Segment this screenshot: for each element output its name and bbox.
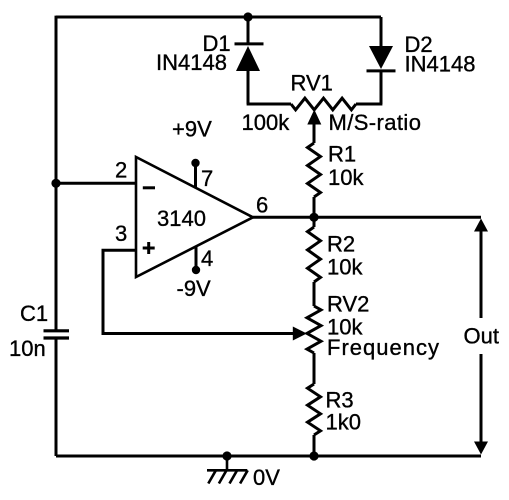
svg-text:Frequency: Frequency bbox=[327, 335, 440, 360]
svg-text:6: 6 bbox=[256, 193, 268, 218]
wire R3 to bottom rail bbox=[313, 435, 316, 456]
svg-text:100k: 100k bbox=[242, 110, 291, 135]
svg-text:M/S-ratio: M/S-ratio bbox=[329, 110, 422, 135]
svg-text:+9V: +9V bbox=[172, 117, 212, 142]
wire left rail upper (top rail to C1) bbox=[55, 16, 58, 331]
diode D2 (cathode down) bbox=[367, 17, 396, 104]
svg-text:10n: 10n bbox=[9, 336, 46, 361]
svg-text:3140: 3140 bbox=[157, 206, 206, 231]
resistor R1 bbox=[308, 143, 321, 197]
wire RV1 wiper to R1 bbox=[313, 123, 316, 143]
op-amp inverting input marker (minus) bbox=[143, 186, 155, 189]
op-amp U1 3140 triangle bbox=[136, 157, 253, 277]
wire output node (pin 6 to Out arrow) bbox=[253, 216, 481, 219]
svg-text:0V: 0V bbox=[253, 465, 280, 490]
svg-text:RV2: RV2 bbox=[327, 292, 369, 317]
junction node output / R1 / R2 bbox=[309, 213, 318, 222]
output indicator arrow up bbox=[474, 219, 488, 319]
capacitor C1 bbox=[44, 331, 70, 338]
junction node bottom rail / ground bbox=[222, 451, 231, 460]
junction node left rail / pin 2 bbox=[51, 179, 60, 188]
junction node bottom rail / R3 bbox=[309, 451, 318, 460]
ground symbol 0V bbox=[207, 456, 248, 484]
svg-text:R2: R2 bbox=[327, 232, 355, 257]
svg-text:-9V: -9V bbox=[177, 276, 212, 301]
svg-text:10k: 10k bbox=[327, 255, 363, 280]
power +9V stub (pin 7) bbox=[191, 159, 199, 189]
wire bottom rail bbox=[56, 455, 481, 458]
op-amp non-inverting input marker (plus) bbox=[143, 242, 155, 254]
wire pin 3 to RV2 wiper bbox=[103, 250, 295, 333]
wire left rail lower (C1 to bottom rail) bbox=[55, 338, 58, 456]
svg-text:C1: C1 bbox=[20, 301, 48, 326]
svg-text:1k0: 1k0 bbox=[326, 410, 361, 435]
potentiometer RV1 track bbox=[247, 98, 383, 110]
wire top rail bbox=[56, 16, 381, 19]
potentiometer RV2 element bbox=[307, 306, 321, 353]
resistor R2 bbox=[308, 217, 321, 306]
output indicator arrow down bbox=[474, 354, 488, 455]
diode D1 (cathode up) bbox=[235, 17, 264, 104]
wire R1 to output node bbox=[313, 197, 316, 217]
svg-text:3: 3 bbox=[115, 221, 127, 246]
svg-text:2: 2 bbox=[115, 158, 127, 183]
resistor R3 bbox=[308, 384, 321, 435]
svg-text:RV1: RV1 bbox=[291, 71, 333, 96]
svg-text:IN4148: IN4148 bbox=[405, 52, 476, 77]
potentiometer RV1 wiper arrow bbox=[307, 110, 321, 125]
svg-text:R1: R1 bbox=[328, 142, 356, 167]
potentiometer RV2 wiper arrow bbox=[293, 327, 307, 341]
power -9V stub (pin 4) bbox=[192, 246, 200, 274]
junction node top rail / D1 branch bbox=[243, 12, 252, 21]
svg-text:7: 7 bbox=[201, 166, 213, 191]
svg-text:Out: Out bbox=[464, 324, 499, 349]
svg-text:10k: 10k bbox=[328, 165, 364, 190]
svg-text:IN4148: IN4148 bbox=[156, 50, 227, 75]
svg-text:4: 4 bbox=[201, 246, 213, 271]
wire RV2 to R3 bbox=[313, 353, 316, 384]
wire pin 2 to left rail bbox=[56, 182, 136, 185]
